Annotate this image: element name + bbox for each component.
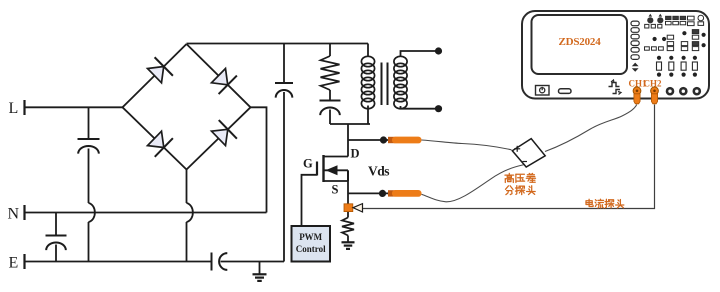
cable source probe to diff probe: [422, 165, 524, 202]
top right buttons: [666, 15, 704, 25]
svg-text:ZDS2024: ZDS2024: [559, 36, 602, 48]
cable drain probe to diff probe: [422, 140, 512, 150]
diode D3: [148, 131, 173, 157]
wire bridge bottom to E: [186, 170, 188, 262]
label high-voltage differential probe (高压差/分探头): [505, 173, 536, 194]
svg-text:L: L: [9, 100, 19, 117]
wire bridge right to N: [251, 107, 267, 212]
label G: [303, 157, 313, 171]
wire DC top rail: [187, 43, 369, 45]
svg-text:Control: Control: [296, 244, 326, 254]
wire secondary top lead: [401, 51, 438, 57]
ground E: [253, 274, 267, 281]
wire hop bridge over N: [187, 203, 193, 222]
resistor R2 source: [342, 218, 354, 236]
node drain probe: [380, 136, 387, 143]
capacitor CE: [212, 253, 228, 271]
wire source vertical: [347, 181, 349, 218]
BNC connector 4: [679, 87, 688, 96]
mosfet Q1 drain lead: [324, 156, 349, 158]
differential probe box: [512, 139, 545, 167]
label CH2: [644, 79, 663, 89]
wire primary top lead: [367, 44, 369, 57]
wire snubber top lead: [329, 44, 331, 57]
wire snubber bottom lead: [329, 110, 331, 125]
mosfet Q1 source lead: [324, 180, 349, 182]
ground source: [342, 242, 355, 249]
wire primary bottom lead: [367, 106, 369, 125]
svg-text:E: E: [9, 255, 19, 272]
wire gate to PWM: [302, 175, 318, 226]
mosfet Q1 right bar: [347, 170, 349, 181]
transformer T1 primary: [361, 56, 374, 108]
oscilloscope body: [522, 11, 709, 99]
wire resistor to ground: [347, 236, 349, 243]
probe P2 source (orange): [388, 190, 422, 197]
diode D2: [212, 69, 237, 95]
label D: [351, 147, 360, 161]
wire primary bottom rail: [330, 123, 370, 125]
BNC connector 3: [666, 87, 675, 96]
cable current probe to CH2: [363, 105, 655, 209]
wire hop CX1 over N: [89, 203, 95, 222]
transformer T1 secondary: [394, 56, 407, 108]
label ZDS2024: [559, 36, 602, 48]
terminal L: [9, 100, 25, 117]
wire drain vertical: [347, 124, 349, 157]
svg-text:G: G: [303, 157, 313, 171]
wire bridge edge bottom-right: [187, 107, 251, 169]
capacitor C2 snubber: [320, 101, 341, 116]
label S: [332, 183, 339, 197]
wire E ground stub: [259, 262, 261, 275]
current probe clamp: [344, 204, 363, 212]
node secondary top: [435, 47, 442, 54]
mosfet Q1 gate bar: [316, 162, 318, 176]
CH2 connector plug: [651, 87, 659, 104]
wire secondary bottom lead: [401, 106, 438, 109]
wire drain tap: [348, 139, 390, 141]
svg-text:PWM: PWM: [299, 232, 322, 242]
menu button column: [631, 21, 639, 72]
svg-text:N: N: [8, 206, 20, 223]
wire snubber mid lead: [329, 90, 331, 100]
wire N line: [25, 212, 267, 214]
middle buttons: [645, 30, 706, 51]
capacitor C1 bulk: [275, 83, 293, 98]
node secondary bottom: [435, 105, 442, 112]
usb port: [559, 89, 572, 94]
svg-text:S: S: [332, 183, 339, 197]
mosfet Q1 body lead: [324, 165, 349, 175]
terminal N: [8, 205, 25, 223]
vertical control columns: [657, 56, 698, 77]
node source probe: [379, 190, 386, 197]
cable diff probe to CH1: [545, 105, 637, 152]
wire bulk cap bottom lead: [283, 92, 285, 262]
pwm controller U1: [292, 226, 331, 262]
wire CX1 bottom lead: [88, 149, 90, 262]
wire bridge edge bottom-left: [123, 107, 187, 169]
svg-text:D: D: [351, 147, 360, 161]
label current probe (电流探头): [586, 199, 624, 208]
mosfet Q1 channel bar: [322, 155, 324, 182]
power button: [536, 86, 550, 96]
svg-text:Vds: Vds: [368, 164, 389, 179]
diode D4: [212, 120, 237, 146]
wire L input: [25, 106, 123, 108]
waveform icon: [609, 80, 622, 95]
oscilloscope screen: [532, 15, 628, 74]
wire bulk cap top lead: [283, 44, 285, 84]
resistor R1 snubber: [321, 56, 340, 90]
wire bridge edge top-right: [187, 44, 251, 107]
wire E extension: [221, 261, 285, 263]
capacitor CX1: [78, 139, 100, 154]
terminal E: [9, 254, 25, 272]
label CH1: [629, 79, 648, 89]
knobs A B: [645, 14, 664, 28]
wire E line: [25, 261, 212, 263]
wire CY1 bottom lead: [55, 245, 57, 262]
diode D1: [148, 57, 173, 83]
BNC connector 5: [693, 87, 702, 96]
wire source tap: [348, 192, 390, 194]
CH1 connector plug: [633, 87, 641, 104]
probe P1 drain (orange): [388, 137, 422, 144]
wire bridge edge top-left: [123, 44, 187, 107]
wire CX1 top lead: [88, 107, 90, 139]
label Vds: [368, 164, 389, 179]
transformer core: [382, 63, 388, 106]
capacitor CY1: [46, 236, 67, 251]
wire CY1 top lead: [55, 213, 57, 236]
